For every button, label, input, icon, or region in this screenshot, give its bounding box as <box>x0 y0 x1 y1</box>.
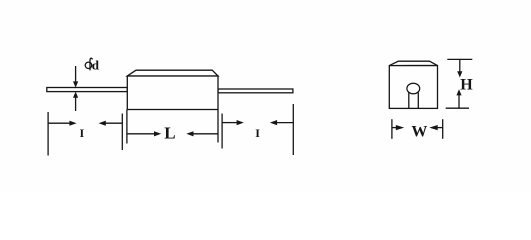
svg-text:W: W <box>411 123 427 140</box>
label l left <box>80 126 85 140</box>
extension line body right edge <box>217 110 219 143</box>
extension line left of body <box>121 114 123 151</box>
W dimension left arrow <box>392 125 404 130</box>
label d <box>92 57 100 72</box>
dimension arrow d lower <box>73 92 78 111</box>
dimension L: left arrow <box>127 131 161 136</box>
label l right <box>255 126 260 140</box>
label W <box>411 123 427 140</box>
H dimension bottom tick <box>446 107 469 109</box>
W dimension left tick <box>391 119 393 139</box>
resistor body front face <box>127 76 218 110</box>
H dimension up arrow <box>456 89 461 108</box>
svg-text:I: I <box>255 126 260 140</box>
resistor body top face (front view) <box>127 70 218 76</box>
lead wire left <box>47 88 128 92</box>
extension line right of body <box>221 114 223 149</box>
resistor body top face (end view) <box>389 61 437 65</box>
H dimension down arrow <box>457 59 462 77</box>
H dimension top tick <box>447 58 472 60</box>
svg-text:H: H <box>460 77 473 94</box>
lead wire right <box>218 89 293 93</box>
dimension l right: right arrow <box>270 120 293 125</box>
lead hole circle in end view <box>407 83 420 94</box>
W dimension right arrow <box>429 125 442 130</box>
lead wire in end view <box>409 93 419 109</box>
label H <box>460 77 473 94</box>
extension line at right lead end <box>292 104 294 155</box>
label L <box>164 124 175 143</box>
dimension l left: left arrow <box>48 121 77 126</box>
dimension l right: left arrow <box>222 120 244 125</box>
svg-text:d: d <box>92 57 100 72</box>
svg-text:I: I <box>80 126 85 140</box>
W dimension right tick <box>442 119 444 139</box>
dimension arrow d upper <box>73 66 78 88</box>
resistor body end view square <box>389 66 437 109</box>
dimension L: right arrow <box>186 131 218 136</box>
dimension l left: right arrow <box>99 121 123 126</box>
extension line body left edge <box>126 110 128 144</box>
label phi (diameter symbol) <box>85 58 92 70</box>
svg-text:L: L <box>164 124 175 143</box>
extension line at left lead end <box>47 112 49 156</box>
